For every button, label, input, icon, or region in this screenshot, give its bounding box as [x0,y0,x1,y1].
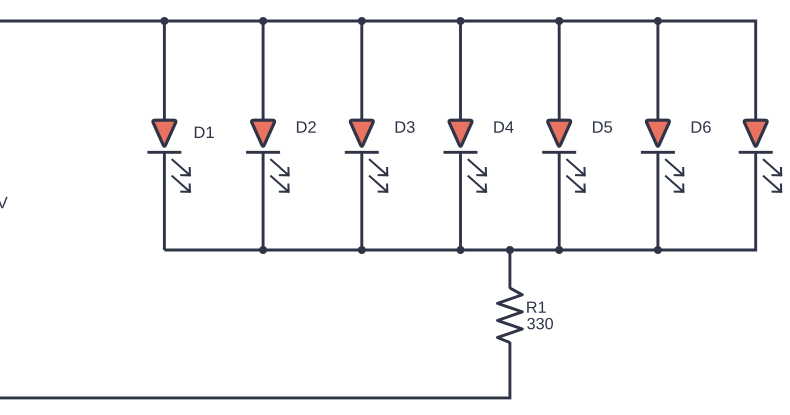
wire: bus to resistor R1 [508,250,511,289]
label D4 [494,121,513,132]
junction dot bottom bus at D2 [259,246,267,254]
wire: D2 anode branch [262,21,265,121]
junction dot top bus at D2 [259,17,267,25]
junction dot top bus at D1 [160,17,168,25]
LED D7 (unlabeled) [739,120,782,192]
wire: D1 anode branch [163,21,166,121]
resistor R1 330 [498,288,523,343]
junction dot top bus at D3 [358,17,366,25]
junction dot bottom bus at resistor [506,246,514,254]
label D5 [593,121,612,133]
junction dot bottom bus at D4 [456,246,464,254]
LED D6 [641,120,684,192]
label D2 [297,121,316,133]
wire: D1 cathode branch [163,152,166,250]
wire: D3 cathode branch [360,152,363,250]
label D3 [396,121,415,133]
LED D1 [147,120,190,192]
wire: D5 anode branch [558,21,561,121]
label D6 [692,121,711,133]
label 5V (supply, cut at left edge) [0,197,8,209]
LED D3 [345,120,388,192]
wire: D5 cathode branch [558,152,561,250]
LED D2 [246,120,289,192]
wire: D3 anode branch [360,21,363,121]
junction dot top bus at D5 [555,17,563,25]
wire: resistor to bottom return [0,342,510,398]
junction dot bottom bus at D3 [358,246,366,254]
wire: bottom cathode bus [164,249,755,252]
junction dot top bus at D6 [654,17,662,25]
wire: top supply bus from 5V source [0,20,756,23]
junction dot bottom bus at D6 [654,246,662,254]
wire: right branch cathode (corner to bottom bus) [754,152,757,251]
junction dot top bus at D4 [456,17,464,25]
wire: D4 anode branch [459,21,462,121]
label R1 [527,302,546,313]
LED D4 [444,120,487,192]
wire: D6 anode branch [656,21,659,121]
junction dot bottom bus at D5 [555,246,563,254]
wire: D6 cathode branch [656,152,659,250]
label D1 [195,127,214,138]
LED D5 [542,120,585,192]
wire: D4 cathode branch [459,152,462,250]
label 330 (ohms) [527,318,553,329]
wire: D2 cathode branch [262,152,265,250]
wire: right branch anode (corner from top bus) [754,20,757,122]
